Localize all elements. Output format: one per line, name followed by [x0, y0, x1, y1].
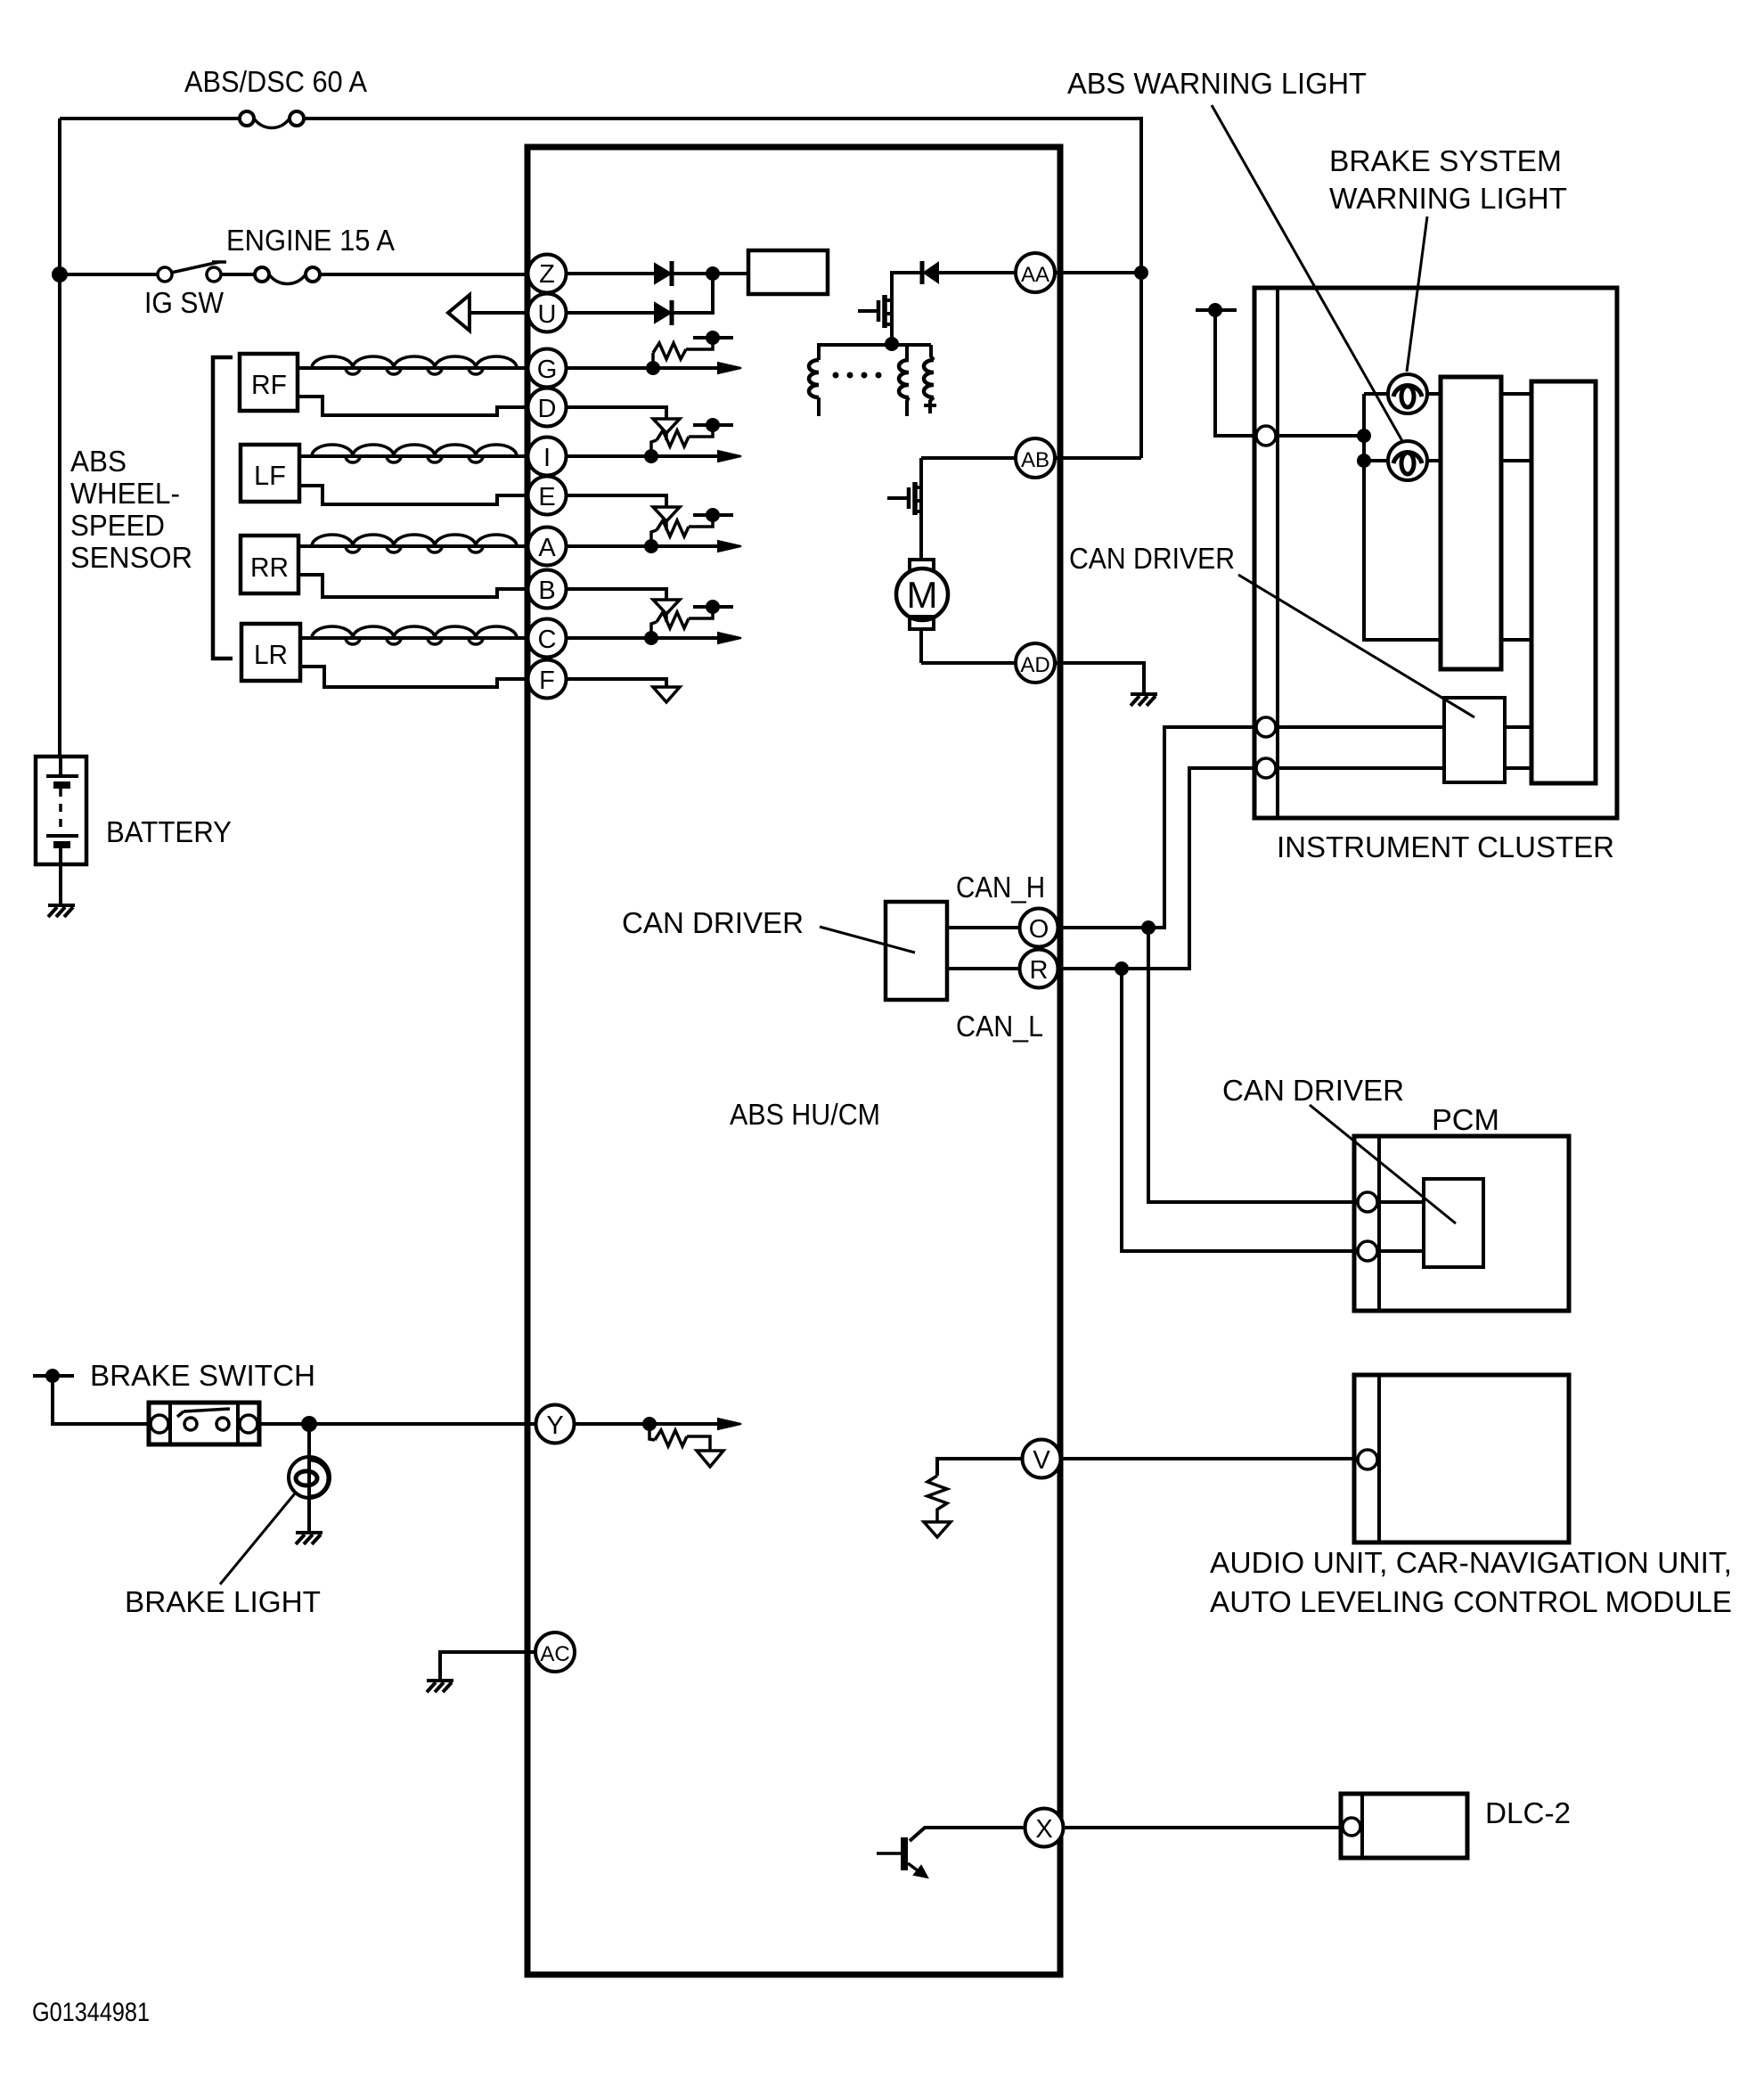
- wire LR to F: [300, 667, 527, 687]
- svg-text:Y: Y: [546, 1411, 563, 1440]
- transformer primary coil: [809, 345, 931, 416]
- terminal X: [1025, 1809, 1064, 1847]
- wire AC internal to ground: [440, 1652, 535, 1679]
- relay coil box: [748, 250, 828, 294]
- connector circle PCM CAN_H: [1358, 1192, 1377, 1212]
- wire U to diode: [565, 311, 654, 315]
- svg-text:A: A: [538, 534, 556, 562]
- svg-text:INSTRUMENT CLUSTER: INSTRUMENT CLUSTER: [1277, 830, 1614, 863]
- svg-text:BATTERY: BATTERY: [106, 815, 232, 848]
- wire brake switch to Y: [259, 1422, 535, 1426]
- zener E: [653, 507, 680, 521]
- svg-text:CAN DRIVER: CAN DRIVER: [1069, 542, 1235, 575]
- sensor LR: [241, 624, 300, 681]
- resistor G branch: [653, 338, 713, 368]
- terminal AC: [535, 1632, 575, 1672]
- terminal D: [528, 389, 567, 427]
- terminal AB: [1016, 438, 1055, 478]
- svg-text:SPEED: SPEED: [70, 509, 165, 542]
- junction node lamp2: [1357, 454, 1371, 468]
- wire to IG SW: [60, 273, 158, 276]
- junction node CAN_L: [1115, 961, 1129, 976]
- switch IG SW: [158, 262, 226, 282]
- coil LF to I: [299, 445, 527, 462]
- label BRAKE SYSTEM WARNING LIGHT: [1329, 144, 1567, 215]
- cluster block 2: [1531, 381, 1596, 783]
- wire motor to AD: [921, 661, 1016, 665]
- svg-text:V: V: [1033, 1446, 1050, 1475]
- wire AB to feed corner: [1055, 456, 1141, 460]
- terminal Y: [536, 1405, 575, 1444]
- fuse ABS/DSC 60 A: [240, 111, 304, 128]
- wire CAN driver to O: [947, 926, 1020, 929]
- junction node Z/U diodes: [706, 266, 720, 281]
- coil RF to G: [298, 356, 527, 374]
- diode U: [655, 274, 713, 325]
- svg-text:WHEEL-: WHEEL-: [70, 477, 180, 510]
- MOSFET Q2: [887, 458, 921, 560]
- transformer coupling dots: [833, 372, 882, 379]
- svg-text:CAN DRIVER: CAN DRIVER: [622, 906, 804, 939]
- PCM box: [1354, 1136, 1569, 1311]
- svg-text:AA: AA: [1021, 263, 1049, 287]
- junction node C: [644, 631, 658, 645]
- svg-text:PCM: PCM: [1432, 1103, 1499, 1136]
- wires PCM internal: [1378, 1202, 1424, 1251]
- terminal V: [1023, 1440, 1061, 1478]
- junction node IG SW branch: [52, 266, 68, 282]
- svg-text:CAN DRIVER: CAN DRIVER: [1222, 1074, 1404, 1107]
- connector circle cluster B+: [1256, 426, 1276, 446]
- wire Z to diode: [565, 272, 654, 275]
- svg-text:BRAKE LIGHT: BRAKE LIGHT: [125, 1585, 321, 1618]
- wire AD to ground: [1055, 663, 1144, 692]
- PCM CAN driver box: [1424, 1179, 1483, 1267]
- brake light lamp: [289, 1424, 330, 1532]
- ground brake light: [296, 1533, 323, 1544]
- ground arrow F: [653, 687, 680, 702]
- pointer CAN driver cluster: [1238, 575, 1474, 717]
- svg-text:F: F: [539, 667, 555, 695]
- label ABS WHEEL-SPEED SENSOR: [70, 445, 192, 574]
- cluster connector strip: [1276, 288, 1279, 818]
- junction node A: [644, 539, 658, 553]
- battery: [36, 757, 86, 904]
- wire G with arrow: [565, 363, 741, 373]
- terminal A: [528, 528, 567, 566]
- terminal C: [528, 619, 567, 658]
- pointer CAN driver pcm: [1310, 1105, 1456, 1223]
- svg-text:D: D: [538, 395, 557, 423]
- lamp box: [1364, 394, 1441, 640]
- terminal AA: [1016, 253, 1055, 292]
- terminal Z: [528, 255, 567, 293]
- wire CAN_L to PCM: [1122, 969, 1359, 1251]
- sensor LF: [241, 445, 299, 502]
- diode Z: [655, 261, 747, 286]
- ground arrow V: [924, 1522, 951, 1537]
- svg-text:ABS HU/CM: ABS HU/CM: [730, 1098, 880, 1131]
- svg-text:ABS WARNING LIGHT: ABS WARNING LIGHT: [1067, 67, 1367, 100]
- svg-text:RR: RR: [250, 552, 289, 583]
- wire U external with arrow: [448, 295, 528, 331]
- wire R CAN_L: [1058, 768, 1257, 969]
- test tick E/A: [693, 513, 733, 517]
- resistor Y: [649, 1424, 710, 1451]
- brake switch: [149, 1403, 259, 1444]
- wire CAN L into cluster: [1277, 766, 1531, 770]
- junction node lamp feed: [1357, 429, 1371, 443]
- svg-text:WARNING LIGHT: WARNING LIGHT: [1329, 182, 1567, 215]
- terminal R: [1020, 950, 1058, 988]
- wire AB internal: [921, 456, 1016, 460]
- svg-text:RF: RF: [251, 369, 287, 400]
- svg-text:AUDIO UNIT, CAR-NAVIGATION UNI: AUDIO UNIT, CAR-NAVIGATION UNIT,: [1210, 1546, 1732, 1579]
- zener D: [653, 419, 680, 433]
- wire X internal: [910, 1828, 1025, 1841]
- svg-text:AD: AD: [1020, 653, 1049, 677]
- coil LR to C: [300, 626, 527, 644]
- bracket sensor group: [213, 357, 233, 659]
- connector circle CAN L: [1256, 758, 1276, 778]
- pointer brake system warning light: [1407, 217, 1427, 372]
- test tick D/I: [693, 423, 733, 427]
- wire O CAN_H: [1058, 727, 1257, 928]
- svg-text:O: O: [1029, 915, 1049, 944]
- motor M: [896, 560, 948, 663]
- wire Y internal with arrow: [575, 1419, 741, 1429]
- terminal G: [528, 349, 567, 388]
- svg-text:R: R: [1030, 956, 1049, 985]
- pointer ABS warning light: [1212, 105, 1406, 447]
- terminal B: [528, 570, 567, 609]
- terminal U: [528, 294, 567, 332]
- test tick G: [693, 336, 733, 339]
- pointer CAN driver mid: [820, 927, 915, 953]
- junction node brake light: [301, 1416, 317, 1432]
- coil RR to A: [298, 535, 527, 552]
- sensor RR: [241, 536, 298, 593]
- svg-text:G01344981: G01344981: [32, 1998, 150, 2027]
- cluster CAN driver box: [1444, 698, 1505, 782]
- svg-text:CAN_H: CAN_H: [956, 871, 1045, 904]
- wire RF to D: [298, 397, 527, 415]
- label AUDIO UNIT CAR-NAVIGATION UNIT: [1210, 1546, 1732, 1618]
- pointer brake light: [220, 1493, 295, 1584]
- test tick B/C: [693, 605, 733, 609]
- audio connector strip: [1377, 1375, 1381, 1542]
- wire I with arrow: [565, 451, 741, 462]
- svg-text:BRAKE SWITCH: BRAKE SWITCH: [90, 1359, 315, 1392]
- wire fuse to terminal Z: [320, 273, 527, 276]
- junction node G: [646, 361, 660, 375]
- transformer secondary coil 2: [924, 345, 936, 413]
- resistor B/C branch: [651, 607, 713, 638]
- wire cluster feed: [1277, 434, 1364, 438]
- connector circle audio: [1358, 1450, 1377, 1469]
- ground arrow Y: [697, 1451, 723, 1467]
- svg-text:IG SW: IG SW: [144, 286, 225, 319]
- wire RR to B: [298, 575, 527, 597]
- wire V to audio unit: [1061, 1457, 1358, 1460]
- svg-text:BRAKE SYSTEM: BRAKE SYSTEM: [1329, 144, 1562, 177]
- svg-text:ENGINE 15 A: ENGINE 15 A: [226, 224, 395, 257]
- svg-text:X: X: [1035, 1815, 1052, 1844]
- svg-text:ABS: ABS: [70, 445, 127, 478]
- lamp ABS warning: [1388, 441, 1427, 480]
- terminal O: [1020, 909, 1058, 947]
- svg-text:ABS/DSC 60 A: ABS/DSC 60 A: [184, 65, 367, 98]
- sensor RF: [240, 354, 298, 411]
- svg-text:E: E: [538, 483, 555, 511]
- audio unit box: [1354, 1375, 1569, 1542]
- ground AC: [427, 1681, 453, 1692]
- svg-text:AC: AC: [540, 1642, 569, 1666]
- wire left vertical battery feed: [58, 119, 61, 757]
- PCM connector strip: [1377, 1136, 1381, 1311]
- wire IG SW to fuse: [221, 273, 255, 276]
- wire C with arrow: [565, 633, 741, 643]
- wire F: [565, 679, 666, 687]
- resistor E/A branch: [651, 515, 713, 546]
- wire CAN driver to R: [947, 967, 1020, 970]
- resistor V: [927, 1476, 947, 1522]
- ground battery: [48, 905, 75, 917]
- wire B: [565, 589, 666, 600]
- junction node CAN_H: [1141, 920, 1156, 935]
- transistor Q3: [877, 1837, 927, 1877]
- svg-text:I: I: [543, 444, 551, 472]
- junction node I: [644, 449, 658, 463]
- ABS HU/CM box: [527, 147, 1060, 1975]
- wire V internal: [937, 1459, 1022, 1476]
- wire AA to feed node: [1055, 271, 1141, 274]
- svg-text:LF: LF: [254, 460, 286, 491]
- svg-text:DLC-2: DLC-2: [1485, 1796, 1571, 1829]
- wire A with arrow: [565, 541, 741, 552]
- wire battery B+ to fuse: [60, 117, 240, 120]
- connector circle CAN H: [1256, 717, 1276, 737]
- svg-text:U: U: [538, 300, 557, 329]
- terminal I: [528, 438, 567, 476]
- connector circle DLC-2: [1343, 1818, 1360, 1836]
- ground AD: [1131, 694, 1157, 706]
- junction node transformer top: [885, 337, 899, 351]
- svg-text:Z: Z: [539, 260, 555, 289]
- svg-text:SENSOR: SENSOR: [70, 541, 192, 574]
- svg-text:LR: LR: [254, 639, 288, 670]
- instrument cluster box: [1254, 288, 1617, 818]
- B+ tick cluster: [1196, 303, 1257, 436]
- cluster block links: [1501, 394, 1531, 640]
- wire CAN H into cluster: [1277, 725, 1531, 729]
- terminal E: [528, 477, 567, 515]
- wire LF to E: [299, 486, 527, 504]
- svg-text:G: G: [537, 356, 558, 384]
- wire CAN_H to PCM: [1148, 928, 1359, 1202]
- junction node AA feed: [1134, 266, 1148, 280]
- svg-text:CAN_L: CAN_L: [956, 1010, 1043, 1043]
- svg-text:M: M: [907, 574, 938, 616]
- wire E: [565, 495, 666, 507]
- wire X to DLC-2: [1064, 1826, 1343, 1829]
- wire D: [565, 407, 666, 419]
- B+ tick brake switch: [33, 1369, 149, 1424]
- svg-text:B: B: [538, 577, 555, 605]
- junction node Y: [642, 1417, 657, 1431]
- wire fuse to corner and down to AB node: [304, 119, 1141, 458]
- fuse ENGINE 15 A: [255, 267, 320, 284]
- diode AA: [892, 261, 938, 303]
- transformer secondary coil 1: [899, 345, 909, 416]
- MOSFET Q1: [858, 273, 892, 344]
- svg-text:AB: AB: [1021, 448, 1049, 472]
- cluster block 1: [1441, 377, 1501, 669]
- lamp brake system warning: [1388, 374, 1427, 413]
- DLC-2 connector strip: [1360, 1794, 1364, 1858]
- wire AA internal: [938, 271, 1016, 274]
- terminal AD: [1016, 643, 1055, 683]
- resistor D/I branch: [651, 425, 713, 456]
- DLC-2 box: [1341, 1794, 1467, 1858]
- CAN driver box: [886, 902, 947, 1000]
- svg-text:C: C: [538, 626, 557, 654]
- zener B: [653, 600, 680, 614]
- terminal F: [528, 660, 567, 699]
- svg-text:AUTO LEVELING CONTROL MODULE: AUTO LEVELING CONTROL MODULE: [1210, 1585, 1732, 1618]
- connector circle PCM CAN_L: [1358, 1241, 1377, 1261]
